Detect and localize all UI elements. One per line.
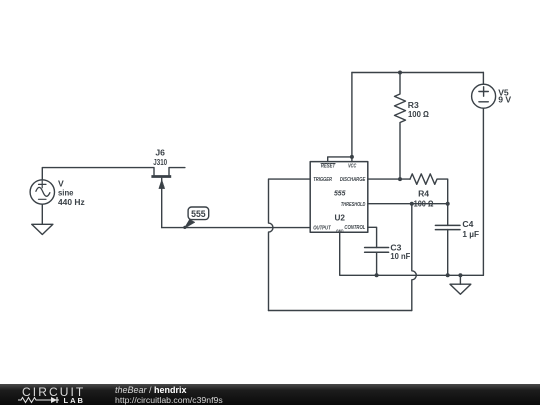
svg-text:100 Ω: 100 Ω — [408, 109, 429, 119]
junction: R3 top / V+ rail — [398, 71, 402, 75]
footer logo resistor+diode — [17, 395, 65, 405]
svg-text:VCC: VCC — [348, 164, 356, 170]
svg-text:CONTROL: CONTROL — [344, 225, 365, 231]
junction: R4 / C4 / THRESHOLD — [446, 202, 450, 206]
svg-text:THRESHOLD: THRESHOLD — [341, 202, 366, 208]
svg-text:C4: C4 — [462, 219, 473, 229]
ground (main) — [450, 284, 471, 294]
voltage source V (sine 440 Hz) — [30, 180, 54, 204]
svg-text:U2: U2 — [334, 213, 345, 223]
junction: VCC / RESET loop — [350, 155, 354, 159]
junction: C3 bottom / gnd rail — [375, 273, 379, 277]
svg-text:TRIGGER: TRIGGER — [313, 177, 332, 183]
ground (below V) — [32, 224, 53, 234]
voltage source V5 (9 V) — [472, 73, 496, 276]
svg-text:J310: J310 — [153, 157, 167, 167]
footer logo CIRCUIT — [22, 385, 85, 399]
wire up to threshold (with hop over gnd wire) — [412, 204, 417, 311]
capacitor C4 — [435, 204, 460, 276]
wire top rail — [352, 72, 483, 74]
resistor R3 — [395, 73, 406, 180]
wire CONTROL to C3 — [368, 227, 377, 247]
footer bar — [0, 384, 540, 405]
capacitor C3 — [365, 248, 389, 276]
RESET overline — [321, 162, 335, 164]
wire RESET/VCC loop — [328, 73, 352, 162]
footer logo LAB — [64, 396, 85, 405]
junction: ground stub / gnd rail — [458, 273, 462, 277]
junction: THRESHOLD / feedback wire — [410, 202, 414, 206]
svg-text:DISCHARGE: DISCHARGE — [340, 177, 366, 183]
junction: R3 bottom / DISCHARGE / R4 — [398, 177, 402, 181]
svg-text:1 µF: 1 µF — [462, 229, 479, 239]
transistor J6 (JFET J310) — [151, 168, 185, 228]
wire gate to OUTPUT pin — [162, 227, 311, 229]
wire ground stub — [459, 275, 461, 284]
footer title — [115, 385, 187, 395]
flag 555 annotation — [184, 207, 209, 229]
svg-text:10 nF: 10 nF — [390, 251, 410, 261]
svg-text:GND: GND — [336, 228, 344, 233]
wire THRESHOLD — [368, 203, 448, 205]
junction: flag pointer on output wire — [183, 226, 186, 229]
wire V top to JFET — [42, 168, 154, 180]
svg-text:555: 555 — [191, 209, 206, 219]
wire V bottom to ground — [41, 204, 43, 224]
svg-text:555: 555 — [334, 188, 346, 197]
junction: C4 bottom / gnd rail — [446, 273, 450, 277]
resistor R4 — [410, 174, 448, 204]
svg-text:OUTPUT: OUTPUT — [313, 226, 331, 232]
wire DISCHARGE to R4 — [368, 178, 410, 180]
wire GND pin down and right to V5 minus — [340, 232, 484, 275]
wire TRIGGER down (with hop over output wire) — [269, 179, 311, 310]
footer url — [115, 395, 223, 405]
svg-text:R4: R4 — [418, 189, 429, 199]
svg-text:440 Hz: 440 Hz — [58, 197, 85, 207]
svg-text:RESET: RESET — [321, 164, 336, 170]
IC U2 (555 timer) body — [310, 162, 368, 233]
svg-text:9 V: 9 V — [498, 95, 511, 105]
wire bottom feedback — [269, 310, 412, 312]
svg-text:100 Ω: 100 Ω — [414, 198, 434, 208]
